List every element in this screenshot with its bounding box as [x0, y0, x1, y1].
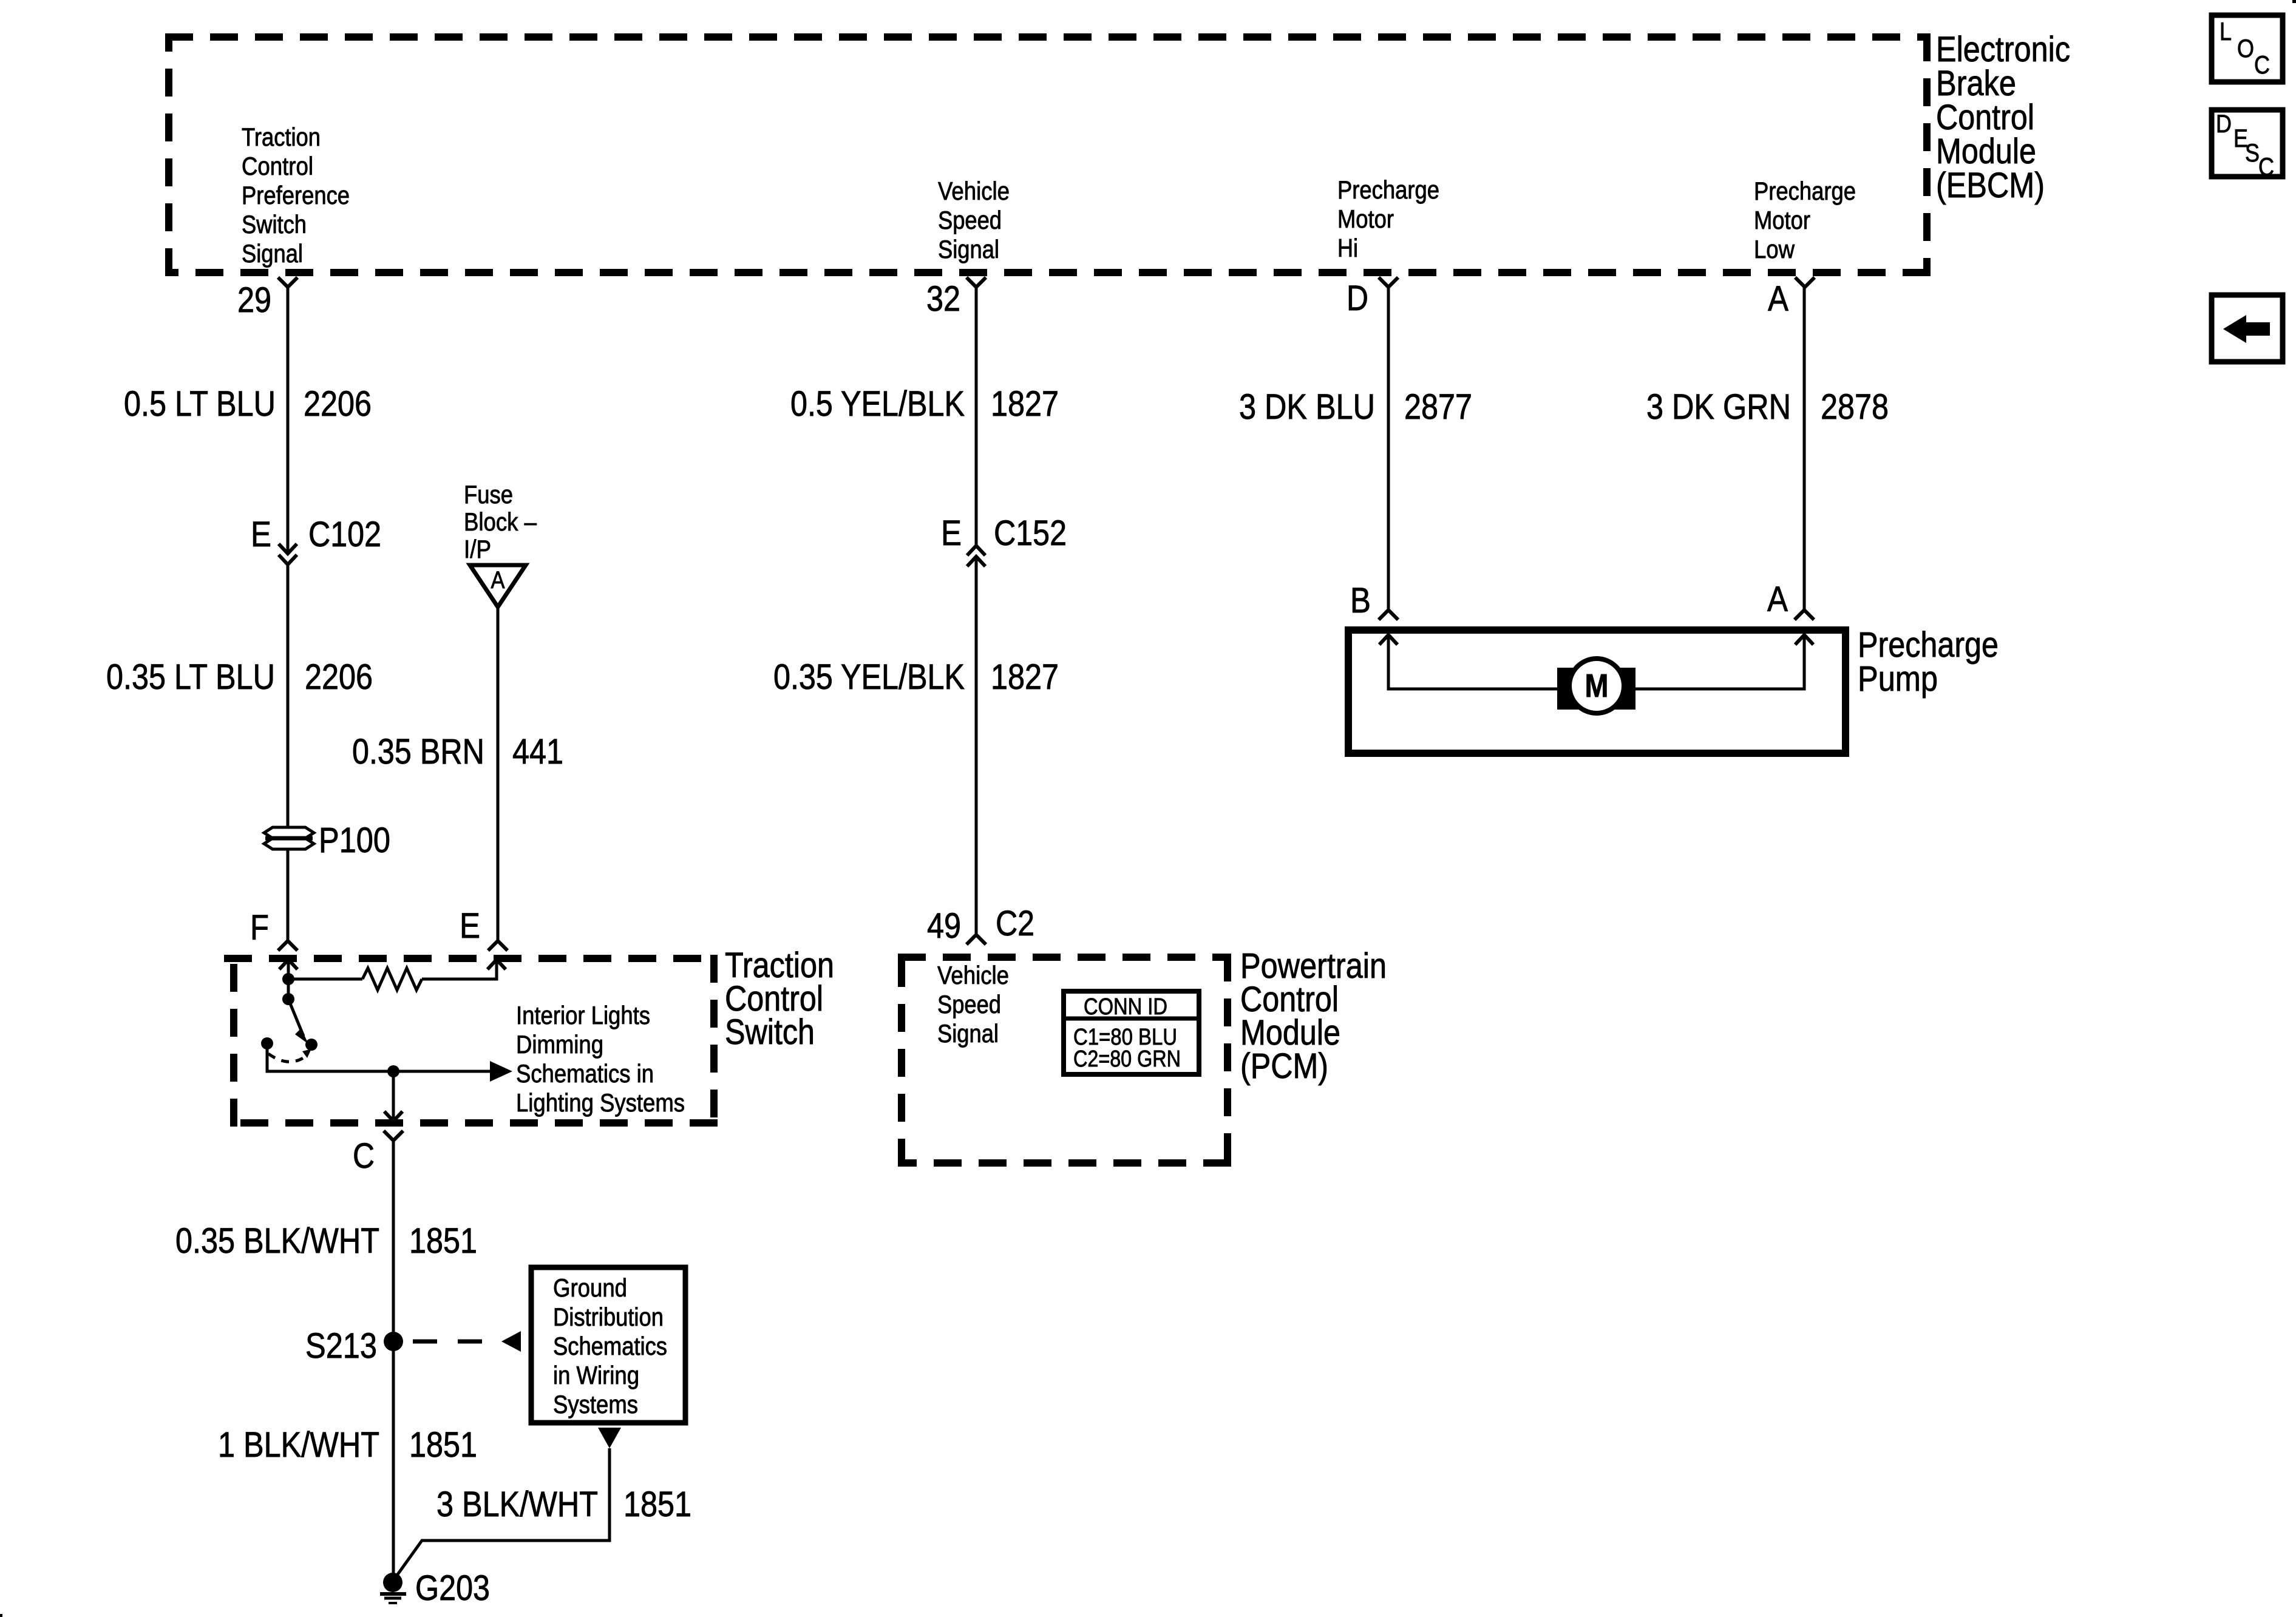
page edge mark [2292, 0, 2296, 3]
svg-text:Schematics: Schematics [553, 1332, 667, 1360]
svg-text:0.5 YEL/BLK: 0.5 YEL/BLK [790, 384, 965, 424]
switch blade pivot node [282, 993, 294, 1005]
wire junction to switch blade pivot [287, 979, 290, 999]
pump pin A label [1767, 580, 1788, 619]
wire: 3 DK BLU 2877 from EBCM pin D to pump pin B [1387, 285, 1390, 610]
pump pin A connector (female fork) [1795, 610, 1814, 620]
svg-text:A: A [1767, 580, 1788, 619]
svg-text:3 DK BLU: 3 DK BLU [1239, 387, 1375, 427]
svg-text:D: D [1347, 279, 1368, 318]
svg-text:Preference: Preference [242, 181, 350, 209]
svg-text:C102: C102 [308, 515, 381, 554]
fuse block I/P triangle symbol with A [470, 565, 526, 607]
svg-text:C: C [2254, 50, 2270, 79]
svg-text:A: A [491, 567, 505, 594]
switch internal pin F entry chevron [279, 960, 297, 969]
EBCM pin A function label: Precharge Motor Low [1754, 177, 1856, 263]
dashed reference link from S213 [413, 1331, 521, 1352]
wire: 0.35 YEL/BLK 1827 from C152 to PCM pin 49 [975, 557, 978, 935]
svg-text:Low: Low [1754, 235, 1795, 263]
svg-text:1851: 1851 [623, 1485, 691, 1524]
svg-text:G203: G203 [415, 1568, 490, 1608]
connector name C152 [994, 514, 1067, 553]
svg-text:(PCM): (PCM) [1240, 1046, 1328, 1086]
PCM pin 49 connector (female fork) [966, 935, 986, 944]
C152 pin E label [941, 514, 962, 553]
junction node on output wire [387, 1065, 399, 1077]
svg-text:Vehicle: Vehicle [938, 177, 1010, 205]
svg-text:29: 29 [237, 280, 271, 320]
Ground Distribution Schematics in Wiring Systems note [553, 1273, 667, 1419]
svg-text:Signal: Signal [937, 1019, 999, 1048]
switch right contact node [305, 1039, 318, 1051]
connector C102 symbol (male arrow into female) [279, 544, 297, 564]
svg-text:CONN ID: CONN ID [1084, 994, 1167, 1020]
switch left contact node [261, 1037, 273, 1049]
svg-text:E: E [460, 906, 480, 946]
svg-text:A: A [1768, 279, 1788, 319]
svg-text:C152: C152 [994, 514, 1067, 553]
module box: Electronic Brake Control Module (EBCM) dashed outline [165, 33, 1931, 276]
svg-text:0.35 BRN: 0.35 BRN [352, 732, 484, 771]
svg-text:Speed: Speed [938, 206, 1002, 234]
EBCM pin 32 connector (female fork) [966, 277, 986, 287]
svg-text:S: S [2245, 138, 2260, 167]
EBCM pin A connector (female fork) [1795, 277, 1815, 287]
ground G203 node and symbol [380, 1573, 406, 1603]
svg-text:L: L [2220, 17, 2232, 46]
svg-text:2877: 2877 [1404, 387, 1472, 427]
circuit number 2206 [305, 657, 373, 697]
wire: 0.35 BLK/WHT 1851 from switch pin C to S213 [392, 1141, 395, 1341]
svg-text:Vehicle: Vehicle [937, 961, 1009, 989]
svg-text:3 BLK/WHT: 3 BLK/WHT [436, 1485, 598, 1524]
junction node (F / resistor) [282, 973, 294, 985]
wire label 3 DK GRN [1646, 387, 1791, 427]
svg-text:in Wiring: in Wiring [553, 1361, 639, 1389]
LOC icon box [2212, 15, 2283, 82]
svg-text:0.35 LT BLU: 0.35 LT BLU [106, 657, 275, 697]
svg-text:Precharge: Precharge [1337, 175, 1439, 204]
resistor R (switch illumination dimmer) [362, 968, 422, 990]
svg-text:Fuse: Fuse [464, 480, 513, 509]
svg-text:Motor: Motor [1337, 205, 1394, 233]
svg-text:O: O [2237, 34, 2254, 63]
switch pin E connector (female fork) [488, 941, 508, 951]
circuit number 1827 [991, 384, 1059, 424]
svg-text:49: 49 [927, 906, 961, 946]
svg-text:Motor: Motor [1754, 206, 1810, 234]
fuse block triangle letter A [491, 567, 505, 594]
motor assembly box: Precharge Pump [1348, 630, 1846, 753]
svg-text:Lighting Systems: Lighting Systems [516, 1088, 685, 1117]
CONN ID row C2=80 GRN [1073, 1046, 1181, 1072]
wire from pin F to junction [287, 961, 290, 979]
svg-text:D: D [2216, 109, 2232, 138]
Precharge Pump name label [1858, 625, 1999, 699]
svg-text:1851: 1851 [409, 1221, 477, 1261]
DESC icon box [2212, 109, 2283, 181]
svg-text:I/P: I/P [464, 535, 491, 563]
svg-text:0.5 LT BLU: 0.5 LT BLU [124, 384, 276, 424]
circuit number 1851 [409, 1425, 477, 1465]
svg-text:2206: 2206 [305, 657, 373, 697]
Fuse Block - I/P label [464, 480, 537, 563]
wire: 0.5 LT BLU 2206 from EBCM pin 29 to C102 [287, 285, 290, 551]
svg-text:C2: C2 [996, 904, 1034, 943]
EBCM pin D function label: Precharge Motor Hi [1337, 175, 1439, 262]
connector name C2 [996, 904, 1034, 943]
svg-text:441: 441 [512, 732, 563, 771]
svg-text:E: E [941, 514, 962, 553]
svg-text:Systems: Systems [553, 1390, 638, 1419]
svg-text:3 DK GRN: 3 DK GRN [1646, 387, 1791, 427]
svg-text:32: 32 [926, 279, 960, 319]
Traction Control Switch name label [725, 946, 834, 1052]
pump pin B connector (female fork) [1379, 610, 1398, 620]
svg-text:F: F [250, 908, 269, 947]
wire label 0.5 LT BLU [124, 384, 276, 424]
circuit number 441 [512, 732, 563, 771]
reference box: Ground Distribution Schematics in Wiring Systems [531, 1267, 685, 1423]
svg-text:C: C [2258, 152, 2274, 181]
module box: Powertrain Control Module (PCM) dashed outline [898, 954, 1231, 1167]
svg-text:1 BLK/WHT: 1 BLK/WHT [218, 1425, 379, 1465]
svg-text:Dimming: Dimming [516, 1030, 603, 1059]
CONN ID row C1=80 BLU [1073, 1025, 1177, 1050]
arrow from reference box down [598, 1428, 621, 1448]
wire: 1 BLK/WHT 1851 from S213 to G203 [392, 1341, 395, 1578]
svg-text:2206: 2206 [304, 384, 372, 424]
switch pin F connector (female fork) [278, 941, 297, 951]
svg-text:1827: 1827 [991, 657, 1059, 697]
wire from left contact down and across [267, 1043, 492, 1071]
switch pin C connector (female fork) below box [384, 1131, 403, 1141]
page corner mark bottom-left [0, 1614, 2, 1617]
wire label 0.35 LT BLU [106, 657, 275, 697]
wire label 0.35 YEL/BLK [773, 657, 965, 697]
arrow to Interior Lights Dimming Schematics [490, 1061, 512, 1082]
svg-text:M: M [1585, 668, 1609, 704]
circuit number 2206 [304, 384, 372, 424]
PCM pin 49 function label: Vehicle Speed Signal [937, 961, 1009, 1048]
svg-text:Signal: Signal [938, 235, 999, 263]
svg-text:0.35 YEL/BLK: 0.35 YEL/BLK [773, 657, 965, 697]
P100 name label [319, 821, 390, 860]
svg-text:E: E [251, 515, 271, 554]
EBCM pin 32 function label: Vehicle Speed Signal [938, 177, 1010, 263]
wire label 0.5 YEL/BLK [790, 384, 965, 424]
circuit number 1827 [991, 657, 1059, 697]
dashed travel arc between contacts [268, 1049, 311, 1062]
svg-text:Hi: Hi [1337, 234, 1358, 262]
pump internal wire from pin B to motor [1379, 635, 1557, 689]
wire from junction to resistor [288, 978, 362, 981]
pin 32 label [926, 279, 960, 319]
svg-text:Block –: Block – [464, 507, 537, 536]
svg-text:(EBCM): (EBCM) [1936, 166, 2045, 205]
pin A label [1768, 279, 1788, 319]
CONN ID header [1084, 994, 1167, 1020]
wire label 0.35 BLK/WHT [175, 1221, 379, 1261]
motor letter M [1585, 668, 1609, 704]
pin 49 label [927, 906, 961, 946]
svg-text:Pump: Pump [1858, 659, 1938, 699]
CONN ID table [1064, 991, 1199, 1074]
pass-through connector P100 symbol [264, 827, 314, 849]
svg-text:0.35 BLK/WHT: 0.35 BLK/WHT [175, 1221, 379, 1261]
switch S1: Traction Control Switch dashed box [224, 955, 718, 1127]
S213 label [305, 1326, 377, 1366]
switch pin E label [460, 906, 480, 946]
back arrow icon box [2212, 295, 2283, 362]
svg-text:B: B [1350, 581, 1371, 620]
circuit number 2877 [1404, 387, 1472, 427]
svg-text:Ground: Ground [553, 1273, 627, 1302]
wire: 3 BLK/WHT 1851 from reference arrow to G203 [396, 1448, 610, 1577]
svg-text:Schematics in: Schematics in [516, 1059, 654, 1088]
circuit number 1851 [623, 1485, 691, 1524]
circuit number 1851 [409, 1221, 477, 1261]
pin F label [250, 908, 269, 947]
EBCM pin 29 connector (female fork) [278, 277, 297, 287]
svg-text:Traction: Traction [242, 123, 321, 151]
pin D label [1347, 279, 1368, 318]
wire: 3 DK GRN 2878 from EBCM pin A to pump pin A [1803, 285, 1806, 610]
svg-text:C: C [353, 1136, 375, 1176]
wire label 3 DK BLU [1239, 387, 1375, 427]
wire label 1 BLK/WHT [218, 1425, 379, 1465]
svg-text:Precharge: Precharge [1754, 177, 1856, 205]
switch internal pin C exit chevron [384, 1111, 402, 1121]
G203 label [415, 1568, 490, 1608]
svg-text:P100: P100 [319, 821, 390, 860]
PCM name label [1240, 946, 1387, 1086]
C102 pin E label [251, 515, 271, 554]
motor M1: precharge pump motor [1557, 659, 1635, 713]
svg-text:S213: S213 [305, 1326, 377, 1366]
svg-text:1827: 1827 [991, 384, 1059, 424]
wire: 0.35 LT BLU 2206 from C102 to P100 [287, 564, 290, 827]
svg-text:Signal: Signal [242, 239, 303, 268]
EBCM pin D connector (female fork) [1379, 277, 1398, 287]
svg-text:2878: 2878 [1821, 387, 1889, 427]
circuit number 2878 [1821, 387, 1889, 427]
svg-text:C2=80 GRN: C2=80 GRN [1073, 1046, 1181, 1072]
svg-text:Control: Control [242, 152, 313, 180]
wire from P100 to switch pin F [287, 849, 290, 941]
wire label 0.35 BRN [352, 732, 484, 771]
splice S213 node [384, 1332, 403, 1351]
pump internal wire from pin A to motor [1635, 635, 1813, 689]
connector name C102 [308, 515, 381, 554]
wire from junction down to pin C [392, 1071, 395, 1121]
connector C152 symbol (male arrow up into female) [967, 546, 985, 566]
svg-text:1851: 1851 [409, 1425, 477, 1465]
Interior Lights Dimming Schematics in Lighting Systems note [516, 1001, 685, 1117]
pin C label [353, 1136, 375, 1176]
svg-text:Switch: Switch [725, 1012, 815, 1052]
wire: 0.35 BRN 441 from fuse block to switch pin E [497, 607, 500, 941]
svg-text:Interior Lights: Interior Lights [516, 1001, 650, 1029]
wire label 3 BLK/WHT [436, 1485, 598, 1524]
switch blade with arrowhead [288, 999, 308, 1044]
svg-text:Distribution: Distribution [553, 1303, 664, 1331]
svg-text:Switch: Switch [242, 210, 307, 239]
switch internal pin E entry chevron [487, 960, 506, 969]
wire: 0.5 YEL/BLK 1827 from EBCM pin 32 to C152 [975, 285, 978, 546]
EBCM pin 29 function label: Traction Control Preference Switch Signal [242, 123, 350, 268]
EBCM name label [1936, 30, 2070, 205]
svg-text:Speed: Speed [937, 990, 1001, 1019]
pin B label [1350, 581, 1371, 620]
pin 29 label [237, 280, 271, 320]
wire from resistor to pin E riser [422, 961, 497, 979]
